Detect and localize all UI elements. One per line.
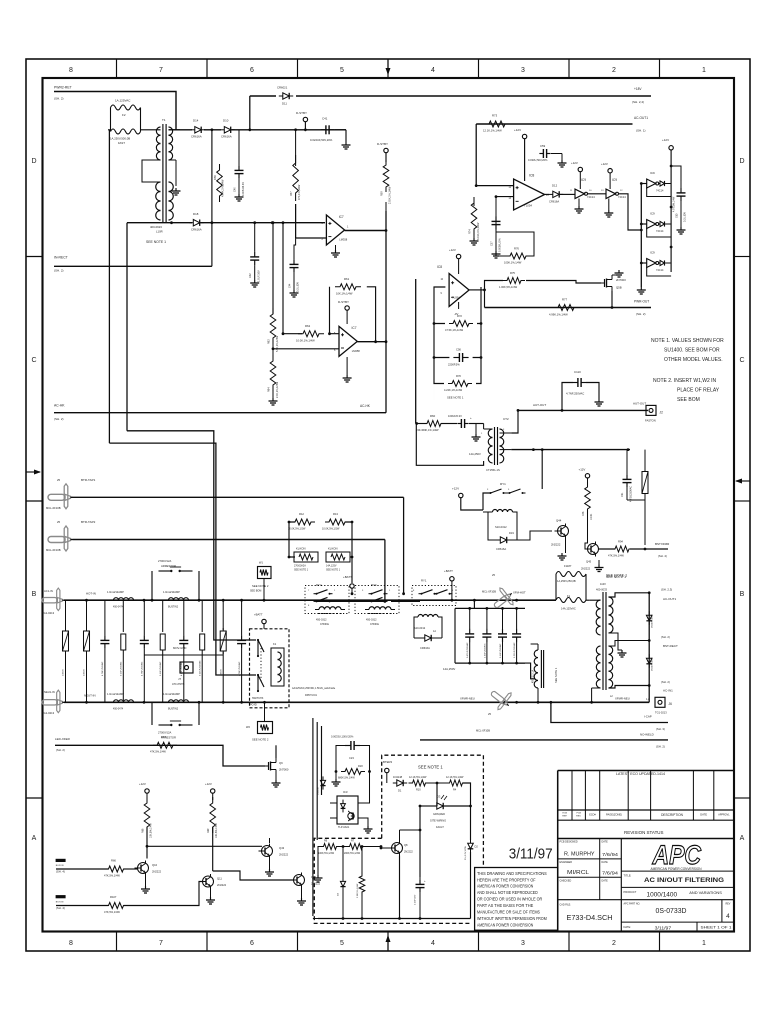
border column tick bbox=[478, 59, 480, 78]
wire T1 to D14 bbox=[169, 129, 193, 131]
svg-text:+12V: +12V bbox=[514, 128, 521, 132]
ground CT2 left bbox=[475, 424, 477, 435]
svg-text:BUZON: BUZON bbox=[56, 865, 64, 867]
svg-text:0.0033U,100V,20%: 0.0033U,100V,20% bbox=[331, 735, 354, 739]
svg-text:12.1K,5%,1/4W: 12.1K,5%,1/4W bbox=[409, 776, 427, 779]
svg-text:IN-RECT: IN-RECT bbox=[54, 256, 68, 260]
ground C60 bbox=[680, 227, 682, 230]
svg-text:4.64K,1%,1/4W: 4.64K,1%,1/4W bbox=[222, 179, 225, 197]
wire CT2 return loop bbox=[416, 424, 483, 466]
rail +18V bbox=[250, 95, 276, 97]
svg-text:TLP-0A01: TLP-0A01 bbox=[338, 826, 350, 829]
svg-text:450-0312: 450-0312 bbox=[316, 619, 327, 622]
svg-text:IC9: IC9 bbox=[650, 212, 655, 216]
transformer T1 bbox=[162, 124, 164, 223]
svg-text:C61: C61 bbox=[621, 492, 624, 497]
product row bbox=[621, 886, 734, 888]
wire IC7A out bbox=[345, 230, 386, 232]
svg-text:1N5404,400V: 1N5404,400V bbox=[652, 614, 654, 628]
border column tick bbox=[206, 59, 208, 78]
svg-text:6: 6 bbox=[250, 67, 254, 74]
svg-text:100K,5%,1/4W: 100K,5%,1/4W bbox=[318, 852, 335, 855]
svg-text:W2: W2 bbox=[246, 725, 250, 729]
svg-text:5.9K,1%,1/4W: 5.9K,1%,1/4W bbox=[276, 335, 279, 352]
resistor R13 bbox=[325, 519, 349, 525]
inverter IC9 output 1 bbox=[641, 183, 646, 185]
svg-text:1.0UF,16V: 1.0UF,16V bbox=[258, 270, 261, 282]
svg-text:PART AS THE BASIS FOR THE: PART AS THE BASIS FOR THE bbox=[477, 903, 533, 908]
wire capbank top bbox=[455, 607, 525, 609]
diode D21 bbox=[646, 615, 652, 621]
svg-text:1N5404,400V: 1N5404,400V bbox=[652, 657, 654, 671]
svg-text:(SH. 2): (SH. 2) bbox=[54, 269, 64, 273]
svg-text:+BATT: +BATT bbox=[343, 575, 352, 579]
capacitor C61 vertical bbox=[626, 474, 628, 479]
svg-text:0.22UF,250VAC: 0.22UF,250VAC bbox=[198, 660, 201, 676]
svg-text:SITE WIRING: SITE WIRING bbox=[430, 819, 446, 823]
flag +12V IC8A bbox=[522, 134, 526, 138]
svg-text:+12V: +12V bbox=[139, 782, 146, 786]
capacitor C3 bbox=[143, 613, 145, 635]
optocoupler IC3 bbox=[337, 796, 358, 824]
capacitor C12 bbox=[469, 608, 471, 629]
svg-text:AC-OUT1: AC-OUT1 bbox=[663, 597, 676, 601]
ground IC9A bbox=[578, 199, 580, 207]
connector J6 bbox=[655, 697, 665, 707]
svg-text:L10R: L10R bbox=[156, 230, 163, 234]
wire BTR-TAP2 drop bbox=[384, 540, 386, 602]
svg-text:AC-IN1: AC-IN1 bbox=[663, 689, 673, 693]
svg-text:CR616A: CR616A bbox=[191, 135, 202, 139]
svg-text:C60: C60 bbox=[676, 213, 679, 218]
svg-text:5%,6.2V,1/2W: 5%,6.2V,1/2W bbox=[465, 845, 467, 860]
flag D-STBY 1 bbox=[303, 117, 307, 121]
svg-text:R64: R64 bbox=[268, 387, 271, 392]
wire vbus1 bbox=[312, 718, 314, 916]
wire D18 to node bbox=[201, 222, 326, 224]
rail AC-OUT1 top bbox=[476, 123, 632, 125]
svg-text:CHOKE: CHOKE bbox=[370, 623, 379, 626]
svg-text:1A,250V,250,0B: 1A,250V,250,0B bbox=[557, 579, 576, 583]
relay K1 coil bbox=[271, 648, 284, 686]
capacitor C1 bbox=[104, 613, 106, 635]
ground R74 bbox=[473, 238, 475, 241]
svg-text:D: D bbox=[739, 158, 744, 165]
svg-text:2.05K,1%,1/4W: 2.05K,1%,1/4W bbox=[389, 186, 392, 204]
svg-text:S10-0312: S10-0312 bbox=[414, 626, 426, 630]
border column tick bbox=[568, 59, 570, 78]
svg-text:SEE BOM: SEE BOM bbox=[677, 397, 700, 403]
svg-text:0.033U,50V,20%: 0.033U,50V,20% bbox=[528, 158, 548, 162]
svg-text:F1: F1 bbox=[567, 594, 571, 598]
svg-text:1.00K,5%,1/4W: 1.00K,5%,1/4W bbox=[499, 285, 518, 289]
resistor R73 bbox=[485, 121, 509, 127]
svg-text:R78: R78 bbox=[582, 511, 585, 516]
svg-text:SHEET 1 OF 1: SHEET 1 OF 1 bbox=[701, 926, 732, 930]
svg-text:R68: R68 bbox=[142, 828, 145, 833]
resistor R62 bbox=[298, 331, 324, 337]
varistor MOV2 bbox=[642, 472, 648, 494]
svg-text:AMERICAN POWER CONVERSION: AMERICAN POWER CONVERSION bbox=[477, 884, 533, 889]
svg-text:D-STBY: D-STBY bbox=[296, 111, 307, 115]
capacitor C44 bbox=[294, 204, 296, 259]
capacitor C58 pol bbox=[457, 423, 461, 425]
ground C57 bbox=[495, 251, 497, 254]
svg-text:SEE NOTE 1: SEE NOTE 1 bbox=[606, 574, 627, 578]
svg-text:1N4148: 1N4148 bbox=[318, 787, 320, 795]
svg-text:10.0K,1%,1/4W: 10.0K,1%,1/4W bbox=[296, 339, 315, 343]
resistor R6 bbox=[320, 844, 341, 850]
svg-text:W1: W1 bbox=[259, 561, 263, 565]
svg-text:4.7NF,250VAC: 4.7NF,250VAC bbox=[141, 661, 144, 676]
svg-text:(SH. 2): (SH. 2) bbox=[661, 635, 670, 639]
wire MOV to bst rail bbox=[627, 499, 645, 501]
border row tick bbox=[26, 797, 43, 799]
svg-text:A: A bbox=[740, 835, 745, 842]
capacitor C56 bbox=[453, 357, 459, 359]
svg-text:2: 2 bbox=[612, 67, 616, 74]
svg-text:IC9: IC9 bbox=[612, 178, 617, 182]
svg-text:2: 2 bbox=[612, 940, 616, 947]
svg-text:SWITCH3: SWITCH3 bbox=[252, 697, 264, 700]
svg-text:C: C bbox=[739, 357, 744, 364]
resistor R12 bbox=[291, 519, 315, 525]
rail AC-OUT bbox=[518, 409, 648, 411]
led D3 bbox=[437, 803, 443, 809]
wire +18V riser bbox=[249, 96, 251, 130]
ground Q43 bbox=[269, 859, 271, 870]
center mark bottom bbox=[387, 936, 389, 951]
wire IC8A out bbox=[545, 193, 549, 195]
wire CT2 to AC-OUT rail bbox=[511, 410, 518, 433]
svg-text:7/6/94: 7/6/94 bbox=[602, 852, 619, 857]
ground C40 bbox=[238, 194, 240, 197]
svg-text:Q11: Q11 bbox=[217, 877, 222, 881]
svg-text:BTR-TAP1: BTR-TAP1 bbox=[81, 478, 96, 482]
svg-text:ATC-PNTB: ATC-PNTB bbox=[172, 683, 185, 686]
svg-text:LATEST ECO UPDATED-1414: LATEST ECO UPDATED-1414 bbox=[616, 772, 665, 776]
svg-text:2.2UF,50V: 2.2UF,50V bbox=[415, 894, 417, 905]
svg-text:XFM-HOT: XFM-HOT bbox=[513, 591, 526, 595]
svg-text:TG1-0213: TG1-0213 bbox=[42, 711, 55, 715]
ground F1 bbox=[598, 565, 600, 568]
svg-text:7: 7 bbox=[159, 67, 163, 74]
rail NEUT bbox=[64, 701, 649, 703]
svg-text:IC9: IC9 bbox=[650, 171, 655, 175]
diode D19 RY1 bbox=[500, 537, 506, 543]
capacitor C5 bbox=[183, 613, 185, 635]
svg-text:R18: R18 bbox=[358, 765, 363, 768]
svg-text:D: D bbox=[31, 158, 36, 165]
svg-text:APC PART NO.: APC PART NO. bbox=[624, 903, 641, 906]
svg-text:74C14: 74C14 bbox=[618, 195, 626, 199]
capacitor C7 bbox=[241, 613, 243, 635]
svg-text:RY1: RY1 bbox=[421, 579, 427, 583]
ground T2 tap bbox=[621, 650, 623, 653]
relay RY3 contact a bbox=[369, 593, 372, 595]
wire row b bbox=[316, 600, 385, 602]
zener D2 bbox=[468, 843, 474, 849]
border row tick bbox=[26, 256, 43, 258]
svg-text:5: 5 bbox=[340, 67, 344, 74]
component W2 bbox=[258, 722, 273, 734]
wire Q8 emitter bbox=[399, 856, 401, 919]
resistor R70 bbox=[448, 381, 472, 387]
svg-text:CR6021: CR6021 bbox=[277, 86, 288, 90]
svg-text:2N2222: 2N2222 bbox=[279, 853, 289, 857]
resistor R67 bbox=[153, 742, 177, 748]
svg-text:D12: D12 bbox=[552, 184, 558, 188]
svg-text:AND VARIATIONS: AND VARIATIONS bbox=[689, 891, 722, 895]
svg-text:R72: R72 bbox=[457, 314, 462, 318]
svg-text:BSTON: BSTON bbox=[56, 901, 64, 903]
resistor R59 vertical bbox=[383, 160, 389, 192]
resistor R107 bbox=[105, 903, 128, 909]
wire IC9A-IC9B bbox=[587, 193, 606, 195]
svg-text:(SH. 2): (SH. 2) bbox=[656, 745, 665, 749]
svg-text:2N2222: 2N2222 bbox=[404, 851, 413, 854]
dotted outline RY2 bbox=[305, 586, 349, 614]
wire IC9 stack input bus bbox=[640, 184, 642, 288]
rail AC-HK bbox=[54, 412, 386, 414]
svg-text:AND SHALL NOT BE REPRODUCED: AND SHALL NOT BE REPRODUCED bbox=[477, 890, 538, 895]
svg-text:1A: 1A bbox=[433, 630, 436, 633]
svg-text:LED-XFER: LED-XFER bbox=[55, 737, 71, 741]
svg-text:1.0UF,250VDC: 1.0UF,250VDC bbox=[484, 643, 486, 658]
resistor R64 vertical bbox=[270, 355, 276, 391]
svg-text:(SH. 2): (SH. 2) bbox=[54, 97, 64, 101]
svg-text:DATE: DATE bbox=[700, 813, 707, 817]
svg-text:R73: R73 bbox=[492, 114, 498, 118]
wire klixon join bbox=[345, 522, 352, 583]
diode D10 bbox=[224, 127, 230, 133]
ground Q5B source bbox=[612, 274, 619, 276]
wire IC9B out loop bbox=[619, 194, 641, 230]
connector J9 bbox=[486, 683, 516, 713]
svg-text:REVISION STATUS: REVISION STATUS bbox=[624, 830, 664, 835]
wire IC3 out bbox=[365, 772, 370, 804]
svg-text:WITHOUT WRITTEN PERMISSION FRO: WITHOUT WRITTEN PERMISSION FROM bbox=[477, 916, 547, 921]
svg-text:R61: R61 bbox=[344, 277, 350, 281]
wire Q5B gate bbox=[598, 282, 601, 284]
capacitor C21 bbox=[345, 745, 351, 747]
svg-text:12.1K,1%,1/4W: 12.1K,1%,1/4W bbox=[483, 129, 502, 133]
svg-text:1: 1 bbox=[702, 940, 706, 947]
svg-text:SEE NOTE 1: SEE NOTE 1 bbox=[418, 765, 443, 770]
svg-text:PCB DESIGNED: PCB DESIGNED bbox=[560, 841, 578, 844]
klixon TS1 bbox=[294, 552, 318, 562]
svg-text:25: 25 bbox=[488, 712, 491, 716]
svg-text:PCB: PCB bbox=[576, 813, 581, 815]
svg-text:2.0M,5%,1/4W: 2.0M,5%,1/4W bbox=[357, 883, 359, 898]
svg-text:1000/1400: 1000/1400 bbox=[647, 891, 678, 898]
svg-text:NOTE 2. INSERT W1,W2 IN: NOTE 2. INSERT W1,W2 IN bbox=[653, 378, 717, 384]
svg-text:PWR2-RET: PWR2-RET bbox=[54, 86, 72, 90]
svg-text:130/20: 130/20 bbox=[63, 669, 65, 676]
wire T1 bottom left drop bbox=[126, 223, 128, 431]
svg-text:NEUT-IN: NEUT-IN bbox=[84, 694, 96, 698]
svg-text:100K,1%,1/4W: 100K,1%,1/4W bbox=[504, 261, 522, 265]
svg-text:R62: R62 bbox=[305, 324, 311, 328]
capacitor C110 bbox=[573, 382, 578, 384]
svg-text:AMERICAN POWER CONVERSION: AMERICAN POWER CONVERSION bbox=[651, 867, 703, 871]
svg-text:14A,250V: 14A,250V bbox=[443, 667, 455, 671]
svg-text:BSTXFMR: BSTXFMR bbox=[655, 542, 670, 546]
svg-text:10.0K: 10.0K bbox=[590, 513, 593, 520]
svg-text:130/20: 130/20 bbox=[84, 669, 86, 676]
diode D1 bbox=[397, 780, 403, 786]
svg-text:DATE: DATE bbox=[602, 879, 609, 882]
flag D-STBY 3 bbox=[345, 306, 349, 310]
resistor R56 vertical bbox=[217, 164, 223, 202]
svg-text:R63: R63 bbox=[268, 339, 271, 344]
svg-text:Q5B: Q5B bbox=[616, 286, 622, 290]
resistor R63 vertical bbox=[270, 308, 276, 344]
op-amp IC8B bbox=[449, 274, 469, 307]
svg-text:FAULT: FAULT bbox=[436, 825, 444, 829]
svg-text:4.7NF,250VAC: 4.7NF,250VAC bbox=[566, 392, 584, 396]
wire RY1 to Q44 bbox=[517, 531, 552, 540]
svg-text:PAGE(ZONE): PAGE(ZONE) bbox=[606, 813, 622, 817]
svg-text:(SH. 4): (SH. 4) bbox=[56, 906, 65, 910]
flag +12V IC8B bbox=[456, 254, 460, 258]
svg-text:(SH. 2,4): (SH. 2,4) bbox=[632, 100, 644, 104]
wire R61 loop bbox=[330, 287, 340, 334]
svg-text:4.22K,1%,1/4W: 4.22K,1%,1/4W bbox=[444, 388, 463, 392]
svg-text:0.47UF,250VAC: 0.47UF,250VAC bbox=[466, 642, 469, 658]
diode D14 bbox=[195, 127, 201, 133]
svg-text:R77: R77 bbox=[562, 298, 568, 302]
relay RY1b coil bbox=[418, 615, 423, 618]
offpage net BST-ON bbox=[56, 895, 66, 898]
svg-text:NEU1-IN: NEU1-IN bbox=[44, 690, 55, 694]
svg-text:OR COPIED OR USED IN WHOLE OR: OR COPIED OR USED IN WHOLE OR bbox=[477, 897, 542, 902]
svg-text:FASTON: FASTON bbox=[645, 419, 656, 423]
svg-text:R59: R59 bbox=[381, 191, 384, 196]
svg-text:R13: R13 bbox=[333, 512, 338, 516]
svg-text:14A,125VAC: 14A,125VAC bbox=[561, 607, 576, 611]
transistor Q5B bbox=[601, 282, 605, 284]
svg-text:4: 4 bbox=[431, 940, 435, 947]
svg-text:HEREIN ARE THE PROPERTY OF: HEREIN ARE THE PROPERTY OF bbox=[477, 877, 536, 882]
inductor L2 bbox=[169, 598, 174, 601]
wire IN-RECT bbox=[54, 265, 212, 267]
svg-text:IC7: IC7 bbox=[339, 215, 344, 219]
capacitor C41 bbox=[321, 129, 326, 131]
svg-text:1.0mH/12AMP: 1.0mH/12AMP bbox=[107, 692, 124, 696]
diode D22 bbox=[646, 658, 652, 664]
border row tick bbox=[26, 500, 43, 502]
svg-text:MCL-0F10B: MCL-0F10B bbox=[46, 506, 61, 510]
svg-text:BUSTIN2: BUSTIN2 bbox=[168, 708, 179, 711]
svg-text:2200P,5%: 2200P,5% bbox=[448, 363, 460, 367]
svg-text:RY2: RY2 bbox=[316, 583, 322, 587]
wire D12 to IC9A bbox=[560, 193, 575, 195]
wire IC7A -in bbox=[296, 237, 327, 239]
svg-text:C: C bbox=[31, 357, 36, 364]
svg-text:200K,5%,1/4W: 200K,5%,1/4W bbox=[344, 852, 361, 855]
rail NO-WELD bbox=[420, 739, 668, 741]
svg-text:47K,5%,1/4W: 47K,5%,1/4W bbox=[104, 910, 120, 914]
wire CT2 lower rail bbox=[511, 449, 630, 451]
svg-text:CR616A: CR616A bbox=[496, 547, 506, 551]
svg-text:R57: R57 bbox=[290, 191, 293, 196]
svg-text:R74: R74 bbox=[469, 229, 472, 234]
svg-text:25: 25 bbox=[57, 478, 61, 482]
svg-text:C40: C40 bbox=[234, 187, 237, 192]
resistor R71 feedback bbox=[449, 321, 473, 327]
transformer CT2 bbox=[494, 427, 496, 465]
svg-text:SU1400. SEE BOM FOR: SU1400. SEE BOM FOR bbox=[664, 348, 720, 354]
svg-text:47K,1%,1/4W: 47K,1%,1/4W bbox=[298, 184, 301, 200]
svg-text:R70: R70 bbox=[456, 374, 461, 378]
transistor Q10 bbox=[138, 863, 149, 874]
border column tick bbox=[659, 59, 661, 78]
relay RY1 contacts bbox=[488, 492, 491, 494]
ground Q9 bbox=[275, 774, 277, 780]
border column tick bbox=[116, 59, 118, 78]
svg-text:CT1551-1S: CT1551-1S bbox=[486, 468, 500, 472]
svg-text:+12V: +12V bbox=[452, 487, 459, 491]
svg-text:Q8: Q8 bbox=[404, 843, 408, 847]
svg-text:74C14: 74C14 bbox=[587, 195, 595, 199]
svg-text:D2: D2 bbox=[475, 845, 479, 849]
relay K1 dashed box bbox=[250, 629, 290, 708]
svg-text:CAD FILE:: CAD FILE: bbox=[560, 904, 572, 907]
klixon TS2 bbox=[326, 552, 350, 562]
svg-text:PLACE OF RELAY: PLACE OF RELAY bbox=[677, 388, 720, 394]
wire R68 down bbox=[146, 827, 148, 859]
inverter IC9B bbox=[606, 189, 616, 199]
resistor R69 vertical bbox=[210, 797, 216, 833]
svg-text:DATE: DATE bbox=[602, 861, 609, 864]
dotted outline RY3 bbox=[355, 586, 399, 614]
wire R69 down bbox=[212, 827, 214, 871]
svg-text:MANUFACTURE OR SALE OF ITEMS: MANUFACTURE OR SALE OF ITEMS bbox=[477, 910, 540, 915]
svg-text:270/03A2A: 270/03A2A bbox=[294, 565, 306, 568]
svg-text:AC-HK: AC-HK bbox=[360, 404, 371, 408]
svg-text:0.0056U,5%: 0.0056U,5% bbox=[499, 237, 502, 252]
ground Q44 bbox=[565, 539, 567, 554]
relay K1 contact 1 bbox=[257, 640, 259, 656]
svg-text:R56: R56 bbox=[213, 175, 217, 180]
svg-text:SEE NOTE 1: SEE NOTE 1 bbox=[326, 569, 341, 572]
svg-text:3/11/97: 3/11/97 bbox=[655, 926, 672, 931]
ground R6 bbox=[318, 847, 323, 876]
wire D18 riser bbox=[211, 130, 213, 223]
wire IC7A net bbox=[282, 223, 284, 334]
relay RY1 coil bbox=[493, 510, 498, 513]
ground C44 bbox=[293, 290, 295, 293]
revision table bbox=[558, 809, 734, 811]
title info cells bbox=[558, 858, 622, 860]
svg-text:R67: R67 bbox=[161, 735, 166, 739]
svg-text:D11: D11 bbox=[282, 102, 287, 106]
wire right bus bbox=[648, 593, 650, 703]
svg-text:D1: D1 bbox=[398, 789, 402, 793]
relay RY3 contact b bbox=[369, 600, 372, 602]
svg-text:PWR-OUT: PWR-OUT bbox=[634, 300, 649, 304]
transistor Q11 bbox=[203, 876, 214, 887]
wire PWR2-RET bbox=[54, 92, 176, 130]
svg-text:R66: R66 bbox=[111, 859, 116, 863]
ground C42 bbox=[254, 280, 256, 283]
svg-text:C23: C23 bbox=[349, 756, 354, 760]
svg-text:R94: R94 bbox=[618, 540, 623, 544]
svg-text:CR616A: CR616A bbox=[420, 646, 430, 650]
transistor Q43 bbox=[262, 846, 273, 857]
svg-text:TL054: TL054 bbox=[524, 204, 532, 208]
